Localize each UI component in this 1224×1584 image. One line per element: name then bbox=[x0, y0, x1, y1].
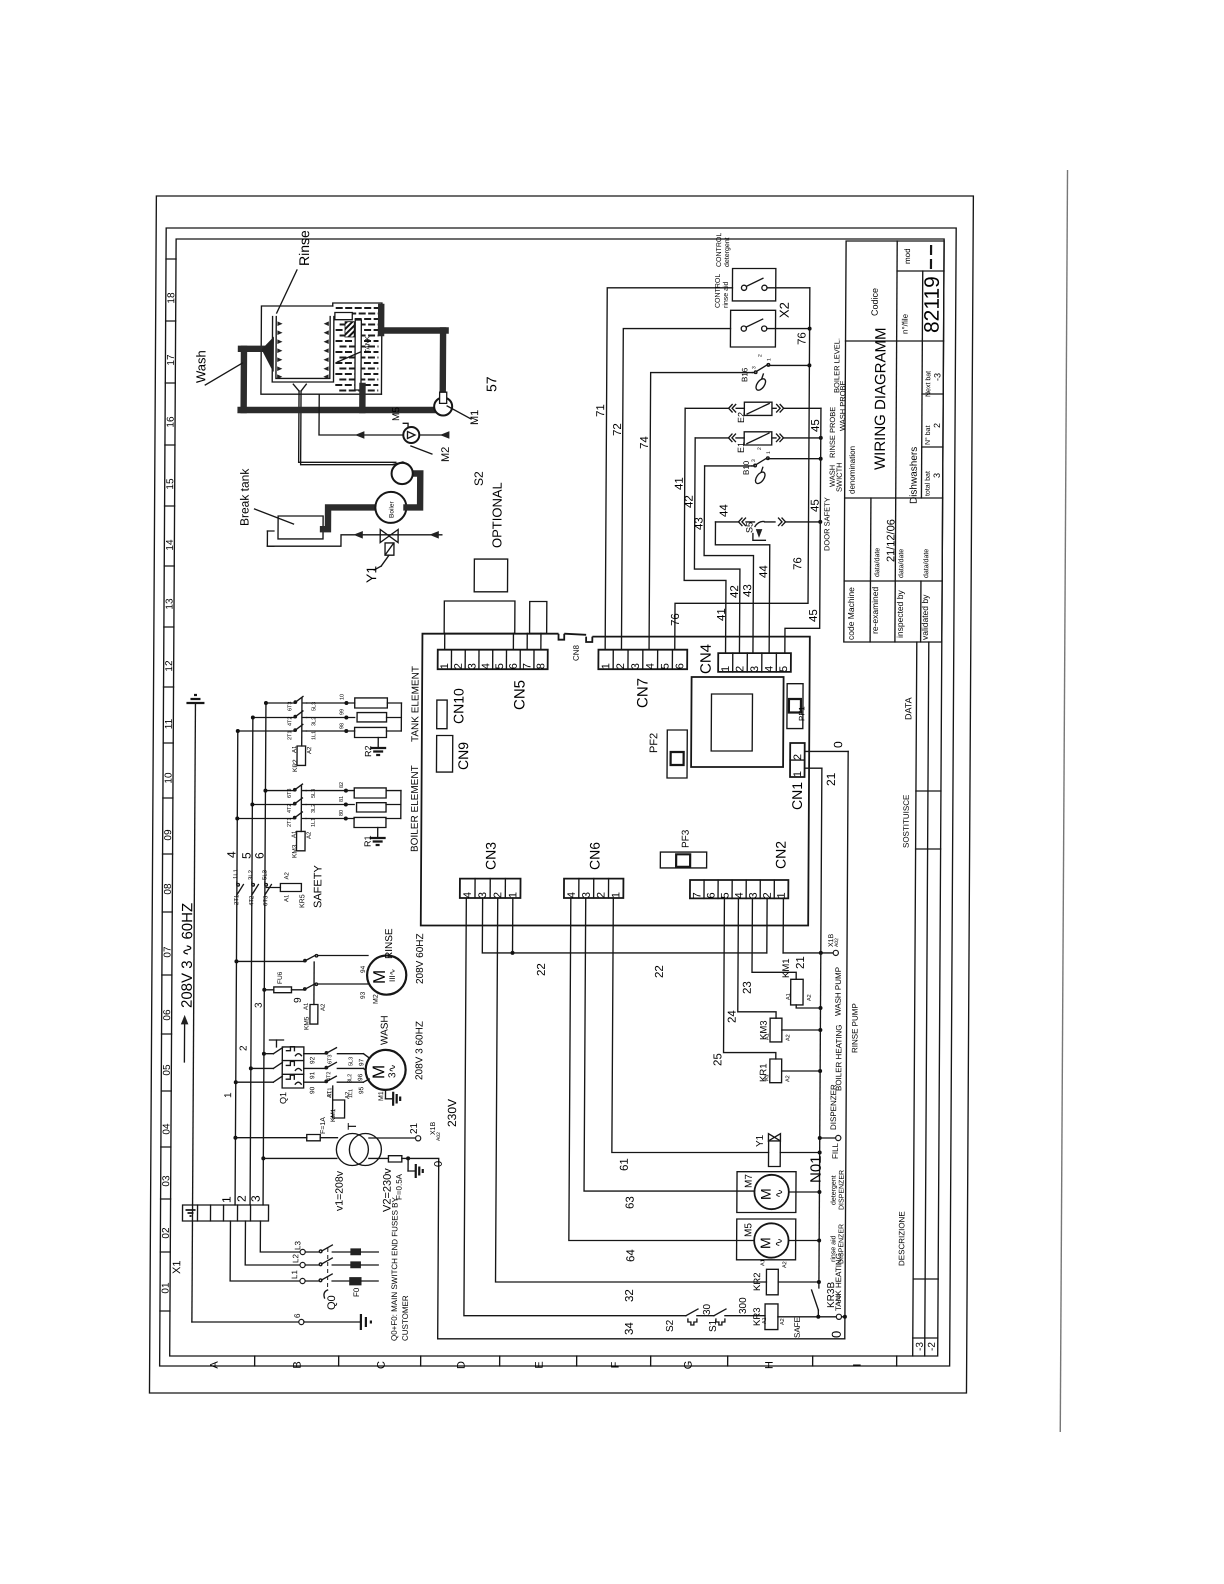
terminal PE 6 bbox=[299, 1319, 304, 1324]
wire B10 out bbox=[768, 458, 820, 460]
ground T secondary bbox=[407, 1158, 409, 1171]
flow arrow 2 on fill line bbox=[430, 532, 438, 538]
svg-text:3: 3 bbox=[630, 663, 642, 669]
svg-text:3: 3 bbox=[467, 663, 479, 669]
svg-text:42: 42 bbox=[729, 585, 741, 598]
svg-text:300: 300 bbox=[738, 1297, 749, 1314]
PE earth line bbox=[192, 703, 196, 1322]
wire 24 bbox=[738, 898, 777, 1018]
wire 72 bbox=[621, 329, 730, 650]
svg-text:KM1: KM1 bbox=[781, 958, 792, 978]
svg-text:4: 4 bbox=[764, 666, 776, 672]
svg-text:05: 05 bbox=[162, 1064, 173, 1076]
wire to E2 bbox=[736, 407, 744, 409]
wire 42 top bbox=[695, 437, 728, 439]
svg-text:L2: L2 bbox=[291, 1254, 300, 1263]
dispenser M7 motor bbox=[754, 1175, 789, 1209]
wire 42 bbox=[694, 438, 741, 653]
svg-text:3L2: 3L2 bbox=[311, 717, 317, 726]
svg-text:G: G bbox=[683, 1361, 695, 1370]
svg-text:02: 02 bbox=[161, 1227, 172, 1239]
junction dot KM3 bbox=[818, 1028, 822, 1032]
svg-text:RINSE PROBE: RINSE PROBE bbox=[828, 407, 837, 458]
svg-text:CONTROL: CONTROL bbox=[715, 274, 722, 308]
svg-text:CN9: CN9 bbox=[455, 742, 471, 770]
svg-text:TANK ELEMENT: TANK ELEMENT bbox=[410, 666, 421, 742]
svg-text:45: 45 bbox=[808, 609, 820, 622]
svg-text:99: 99 bbox=[339, 709, 345, 715]
flow arrow on fill line bbox=[354, 532, 362, 538]
coil Y1 bbox=[768, 1141, 780, 1167]
svg-text:Codice: Codice bbox=[870, 288, 880, 316]
svg-text:FU6: FU6 bbox=[277, 971, 284, 984]
svg-text:2: 2 bbox=[792, 754, 804, 760]
svg-text:KM3: KM3 bbox=[292, 844, 299, 858]
svg-text:1L1: 1L1 bbox=[233, 868, 239, 879]
svg-text:A1: A1 bbox=[292, 745, 298, 753]
svg-text:-3: -3 bbox=[915, 1342, 926, 1351]
svg-text:3: 3 bbox=[749, 666, 761, 672]
svg-text:M1: M1 bbox=[378, 1091, 385, 1101]
X1 wires down bbox=[230, 1221, 299, 1281]
svg-text:1: 1 bbox=[610, 892, 622, 898]
junction dot M7 bbox=[817, 1190, 821, 1194]
svg-text:230V: 230V bbox=[445, 1099, 459, 1127]
svg-text:WASH: WASH bbox=[379, 1015, 390, 1045]
supply arrow bbox=[183, 1020, 185, 1062]
svg-text:06: 06 bbox=[162, 1009, 173, 1021]
svg-text:H: H bbox=[764, 1361, 776, 1369]
svg-text:6: 6 bbox=[674, 663, 686, 669]
svg-text:S2: S2 bbox=[472, 471, 486, 486]
svg-text:Rinse: Rinse bbox=[296, 230, 312, 266]
float switch B16 bbox=[752, 372, 755, 374]
chevrons E2 out bbox=[777, 405, 781, 413]
svg-text:Y1: Y1 bbox=[755, 1134, 766, 1147]
svg-text:2: 2 bbox=[932, 423, 942, 428]
chevrons S5 out bbox=[778, 518, 782, 526]
wire 1 to fuse bbox=[235, 1137, 306, 1139]
svg-text:4T2: 4T2 bbox=[326, 1072, 332, 1081]
svg-text:3: 3 bbox=[249, 1195, 263, 1202]
valve Y1 bowtie bbox=[380, 530, 389, 543]
wash motor wires bbox=[363, 1054, 369, 1058]
svg-text:KR2: KR2 bbox=[752, 1273, 763, 1291]
svg-text:RINSE: RINSE bbox=[384, 928, 395, 959]
T secondary bottom wire bbox=[369, 1157, 389, 1159]
PE wire bottom bbox=[192, 1321, 299, 1323]
svg-text:09: 09 bbox=[163, 829, 174, 841]
svg-text:23: 23 bbox=[742, 981, 754, 994]
svg-text:2: 2 bbox=[492, 892, 504, 898]
svg-text:v1=208v: v1=208v bbox=[334, 1170, 346, 1211]
junction dot rinse w3 bbox=[262, 988, 266, 992]
svg-text:3: 3 bbox=[751, 459, 757, 462]
svg-text:71: 71 bbox=[595, 404, 607, 417]
svg-text:4: 4 bbox=[462, 892, 474, 898]
svg-text:44: 44 bbox=[758, 565, 770, 578]
svg-text:4T2: 4T2 bbox=[287, 717, 293, 726]
svg-text:S5: S5 bbox=[744, 522, 754, 533]
svg-text:detergent: detergent bbox=[724, 237, 731, 267]
svg-text:validated by: validated by bbox=[920, 594, 930, 640]
svg-text:A2: A2 bbox=[345, 1091, 351, 1099]
svg-text:7: 7 bbox=[522, 663, 534, 669]
svg-text:DISPENZER: DISPENZER bbox=[839, 1170, 846, 1210]
fuse PF2 bbox=[667, 730, 687, 778]
svg-text:208V 3 60HZ: 208V 3 60HZ bbox=[414, 1021, 425, 1080]
svg-text:Boiler: Boiler bbox=[389, 501, 396, 518]
svg-text:M: M bbox=[758, 1188, 774, 1200]
svg-text:A2: A2 bbox=[307, 746, 313, 754]
svg-text:94: 94 bbox=[360, 965, 367, 973]
svg-text:N° bat: N° bat bbox=[924, 425, 932, 445]
svg-text:76: 76 bbox=[797, 332, 809, 345]
svg-text:0: 0 bbox=[433, 1161, 445, 1167]
wire 0 bottom link bbox=[842, 1316, 845, 1318]
wash chamber outline bbox=[261, 306, 382, 394]
junction dot KM1 bbox=[818, 1006, 822, 1010]
wire 61 bbox=[612, 898, 770, 1153]
pump M1 riser pipe bbox=[440, 331, 447, 394]
KM3 A2 wire bbox=[782, 1029, 821, 1031]
detergent switch bbox=[741, 285, 746, 290]
probe E2 bbox=[744, 402, 772, 415]
svg-text:A2: A2 bbox=[780, 1318, 786, 1325]
wire E1 out bbox=[772, 437, 776, 439]
svg-text:63: 63 bbox=[625, 1196, 637, 1209]
svg-text:22: 22 bbox=[536, 963, 548, 976]
rinse contact 1 wire bbox=[236, 960, 304, 962]
svg-text:data/date: data/date bbox=[898, 549, 905, 578]
svg-text:25: 25 bbox=[712, 1053, 724, 1066]
wire 34 bbox=[464, 898, 688, 1316]
svg-text:4: 4 bbox=[566, 892, 578, 898]
svg-text:72: 72 bbox=[612, 423, 624, 436]
svg-text:7: 7 bbox=[691, 892, 703, 898]
SAFETY coil KR5 bbox=[280, 884, 301, 892]
wire 22 bbox=[482, 898, 767, 953]
svg-text:rinse aid: rinse aid bbox=[723, 281, 730, 308]
svg-text:97: 97 bbox=[358, 1058, 365, 1066]
svg-text:M2: M2 bbox=[373, 994, 380, 1004]
motor M2 rinse bbox=[367, 956, 406, 995]
svg-text:WIRING DIAGRAMM: WIRING DIAGRAMM bbox=[872, 328, 890, 470]
svg-text:∿: ∿ bbox=[773, 1238, 785, 1247]
bus wire L3/3/6 bbox=[263, 703, 266, 1205]
rinse contact 1 bbox=[304, 956, 315, 962]
svg-text:-2: -2 bbox=[927, 1342, 938, 1351]
transformer T bbox=[336, 1134, 368, 1166]
svg-text:TANK: TANK bbox=[364, 335, 371, 353]
svg-text:L3: L3 bbox=[293, 1241, 302, 1250]
contactor KM1 contacts bbox=[304, 1053, 326, 1055]
junction dot KR1 bbox=[818, 1069, 822, 1073]
junction dot 76 b bbox=[807, 363, 811, 367]
svg-text:X1: X1 bbox=[171, 1261, 183, 1274]
Rinse leader line bbox=[277, 270, 297, 313]
svg-text:DESCRIZIONE: DESCRIZIONE bbox=[897, 1211, 906, 1266]
wire fuse to dot bbox=[402, 1157, 408, 1159]
svg-text:A2: A2 bbox=[321, 1003, 327, 1011]
svg-text:PF2: PF2 bbox=[648, 733, 660, 753]
svg-text:5: 5 bbox=[240, 852, 254, 859]
wire 300 bbox=[725, 1315, 765, 1317]
break tank body bbox=[278, 516, 323, 539]
svg-text:III∿: III∿ bbox=[388, 969, 397, 982]
svg-text:re-examined: re-examined bbox=[870, 586, 880, 634]
ground PE bottom bbox=[360, 1314, 362, 1330]
svg-text:3: 3 bbox=[581, 892, 593, 898]
wash rack outer wall bbox=[272, 317, 334, 382]
svg-text:61: 61 bbox=[619, 1158, 631, 1171]
svg-text:∿: ∿ bbox=[774, 1189, 786, 1198]
thermal switch S1 bbox=[714, 1309, 726, 1316]
connector CN4 bbox=[718, 653, 791, 672]
M7 out wire bbox=[789, 1191, 820, 1193]
float switch B10 bbox=[752, 465, 755, 467]
svg-text:82119: 82119 bbox=[921, 276, 944, 333]
svg-text:6: 6 bbox=[293, 1313, 302, 1318]
tank suction channel bbox=[355, 320, 362, 390]
svg-text:2: 2 bbox=[757, 354, 763, 357]
svg-text:B10: B10 bbox=[742, 460, 751, 475]
junction dot 22 bbox=[511, 951, 515, 955]
svg-text:21: 21 bbox=[409, 1122, 420, 1134]
dispenser M7 box bbox=[737, 1172, 796, 1213]
coil KR1 bbox=[770, 1059, 782, 1083]
svg-text:data/date: data/date bbox=[874, 548, 881, 577]
svg-text:91: 91 bbox=[309, 1071, 316, 1079]
svg-text:43: 43 bbox=[693, 517, 705, 530]
KR1 A2 wire bbox=[782, 1070, 821, 1072]
wire E2 out bbox=[772, 407, 776, 409]
svg-text:82: 82 bbox=[339, 782, 345, 788]
svg-text:BOILER ELEMENT: BOILER ELEMENT bbox=[410, 765, 421, 852]
svg-text:CN2: CN2 bbox=[772, 841, 788, 869]
svg-text:CN4: CN4 bbox=[698, 644, 715, 674]
svg-text:2: 2 bbox=[453, 663, 465, 669]
svg-text:A1: A1 bbox=[284, 894, 290, 902]
control rinse aid box bbox=[730, 310, 775, 347]
Break tank leader bbox=[254, 509, 293, 524]
svg-text:A2: A2 bbox=[284, 871, 290, 879]
boiler contactor KM3 contacts+coil bbox=[265, 790, 293, 792]
rinse aid switch bbox=[741, 326, 746, 331]
svg-text:4T2: 4T2 bbox=[249, 895, 255, 906]
svg-text:21: 21 bbox=[824, 772, 838, 786]
svg-text:CN5: CN5 bbox=[511, 680, 528, 710]
Y1 solenoid body bbox=[385, 543, 394, 555]
svg-text:B16: B16 bbox=[740, 367, 749, 382]
svg-text:4: 4 bbox=[734, 892, 746, 898]
svg-text:A1: A1 bbox=[765, 1033, 771, 1040]
svg-text:F=1A: F=1A bbox=[320, 1117, 327, 1134]
svg-text:Q1: Q1 bbox=[278, 1092, 288, 1104]
svg-text:E1: E1 bbox=[736, 442, 746, 453]
terminal X1B 21 bbox=[416, 1136, 421, 1141]
mod dashes bbox=[930, 245, 932, 255]
svg-text:A2: A2 bbox=[785, 1075, 791, 1082]
connector housing big bbox=[444, 601, 515, 633]
svg-text:X2: X2 bbox=[777, 302, 792, 318]
svg-text:S2: S2 bbox=[665, 1319, 676, 1332]
wash spray funnel bbox=[262, 338, 274, 372]
label M2 pump bbox=[411, 446, 432, 454]
svg-text:M: M bbox=[757, 1237, 773, 1249]
svg-text:SAFE: SAFE bbox=[793, 1317, 802, 1338]
wire 71 bbox=[605, 288, 732, 650]
boiler body bbox=[375, 492, 406, 523]
wire to S5 bbox=[746, 521, 755, 523]
second frame bbox=[160, 228, 957, 1366]
svg-text:1: 1 bbox=[766, 358, 772, 361]
terminal X1B A02 21 bbox=[833, 950, 838, 955]
junction dot 0 bbox=[406, 1156, 410, 1160]
svg-text:1: 1 bbox=[766, 451, 772, 454]
junction dot FILL bbox=[818, 1136, 822, 1140]
wire 0 start bbox=[407, 1158, 439, 1338]
svg-text:22: 22 bbox=[654, 965, 666, 978]
pump M5 doser bbox=[403, 427, 419, 443]
svg-text:A1: A1 bbox=[292, 830, 298, 838]
svg-text:F=0.5A: F=0.5A bbox=[395, 1173, 404, 1200]
svg-text:Y1: Y1 bbox=[363, 566, 379, 583]
svg-text:0: 0 bbox=[829, 1331, 844, 1338]
main bottom pipe bbox=[241, 407, 436, 413]
valve glyph Y1 bbox=[768, 1134, 774, 1141]
motor M1 wash bbox=[366, 1050, 406, 1090]
rinse fuse FU6 bbox=[264, 989, 274, 991]
svg-text:n°/file: n°/file bbox=[901, 313, 910, 334]
svg-text:E2: E2 bbox=[736, 412, 746, 423]
svg-text:44: 44 bbox=[719, 504, 731, 517]
rinse aid tube bbox=[319, 395, 403, 436]
svg-text:6: 6 bbox=[706, 892, 718, 898]
svg-text:F: F bbox=[610, 1361, 622, 1368]
tank heating elements R2 bbox=[307, 702, 347, 704]
terminals L1 L2 L3 bbox=[300, 1278, 305, 1283]
wire 30 bbox=[697, 1315, 714, 1317]
connector CN10 bbox=[437, 700, 447, 729]
coil KM3 bbox=[770, 1018, 782, 1042]
svg-text:3: 3 bbox=[751, 366, 757, 369]
ic big square bbox=[691, 677, 784, 767]
svg-text:4T2: 4T2 bbox=[287, 804, 293, 813]
bus wire L1/1/4 bbox=[235, 731, 238, 1205]
svg-text:13: 13 bbox=[164, 598, 175, 610]
junction dot 45 B10 bbox=[819, 457, 823, 461]
svg-text:A1: A1 bbox=[764, 1074, 770, 1081]
Y1 out wire bbox=[780, 1152, 819, 1154]
bus wire L2/2/5 bbox=[250, 718, 253, 1206]
junction dot KR3 bbox=[816, 1315, 820, 1319]
junction dots Q1 bbox=[262, 1052, 266, 1056]
wire 64 bbox=[569, 898, 756, 1241]
svg-text:21/12/06: 21/12/06 bbox=[885, 519, 897, 562]
wire detergent out bbox=[767, 287, 810, 289]
coil KR2b bbox=[766, 1269, 778, 1295]
svg-text:2: 2 bbox=[615, 663, 627, 669]
connector CN7 bbox=[598, 650, 687, 670]
SAFETY link wire bbox=[266, 887, 280, 889]
svg-text:A02: A02 bbox=[834, 938, 840, 947]
wire 25 bbox=[724, 898, 777, 1059]
wire 32 bbox=[496, 898, 769, 1282]
svg-text:3: 3 bbox=[932, 473, 942, 478]
svg-text:F0: F0 bbox=[352, 1287, 361, 1297]
svg-text:CN3: CN3 bbox=[482, 842, 498, 870]
svg-text:SWICTH: SWICTH bbox=[835, 462, 844, 492]
bus 0 right bbox=[845, 751, 848, 1338]
tank overflow pipe bbox=[335, 313, 352, 320]
svg-text:10: 10 bbox=[163, 772, 174, 784]
OPTIONAL box bbox=[474, 559, 507, 592]
junction dot T primary 3 bbox=[261, 1156, 265, 1160]
junction dot rinse w1 bbox=[234, 959, 238, 963]
drain pipe to M2 bbox=[299, 391, 397, 462]
svg-text:1L1: 1L1 bbox=[311, 731, 317, 740]
svg-text:T: T bbox=[345, 1122, 359, 1130]
svg-text:A1: A1 bbox=[786, 993, 792, 1000]
wire 21 X1B bbox=[821, 768, 822, 953]
ground PE symbol top bbox=[186, 702, 204, 704]
svg-text:41: 41 bbox=[674, 477, 686, 490]
svg-text:43: 43 bbox=[742, 584, 754, 597]
svg-text:A2: A2 bbox=[807, 994, 813, 1001]
svg-text:E: E bbox=[534, 1361, 546, 1368]
svg-text:CN1: CN1 bbox=[789, 782, 805, 810]
svg-text:2T1: 2T1 bbox=[287, 818, 293, 827]
wire 44 top bbox=[715, 521, 738, 523]
bus 76 upper bbox=[675, 288, 810, 650]
drawing area border bbox=[170, 239, 944, 1356]
connector CN3 bbox=[460, 879, 521, 898]
svg-text:92: 92 bbox=[309, 1056, 316, 1064]
scan fold line right bbox=[1060, 170, 1067, 1432]
svg-text:2: 2 bbox=[757, 447, 763, 450]
boiler pipe right bbox=[406, 474, 420, 508]
svg-text:76: 76 bbox=[792, 557, 804, 570]
dispenser M5 motor bbox=[754, 1223, 789, 1257]
svg-text:04: 04 bbox=[161, 1123, 172, 1135]
svg-text:21: 21 bbox=[795, 956, 807, 969]
wire 0 bottom run bbox=[438, 1338, 845, 1340]
tank drain pipe bbox=[359, 386, 366, 410]
svg-text:07: 07 bbox=[162, 946, 173, 958]
svg-text:N01: N01 bbox=[808, 1155, 825, 1183]
X1 PE cell ground bbox=[186, 1209, 196, 1211]
svg-text:6: 6 bbox=[253, 852, 267, 859]
svg-text:FILL: FILL bbox=[831, 1142, 840, 1159]
tank hatched block bbox=[345, 322, 354, 337]
PCB board outline with CN8 notches bbox=[421, 634, 810, 926]
svg-text:41: 41 bbox=[716, 608, 728, 621]
svg-text:6: 6 bbox=[508, 663, 520, 669]
chevrons E1 out bbox=[776, 434, 780, 442]
svg-text:A02: A02 bbox=[436, 1132, 442, 1141]
KM1 link line bbox=[332, 1086, 334, 1100]
T secondary top wire bbox=[369, 1137, 416, 1139]
junction dot 21 bbox=[819, 951, 823, 955]
tank water hatching bbox=[336, 307, 343, 309]
svg-text:11: 11 bbox=[164, 718, 175, 729]
svg-text:1: 1 bbox=[720, 666, 732, 672]
door contact S5 bbox=[755, 521, 764, 526]
svg-text:Wash: Wash bbox=[193, 350, 208, 383]
svg-text:6T3: 6T3 bbox=[287, 789, 293, 798]
flow arrow tube1 bbox=[356, 432, 364, 438]
